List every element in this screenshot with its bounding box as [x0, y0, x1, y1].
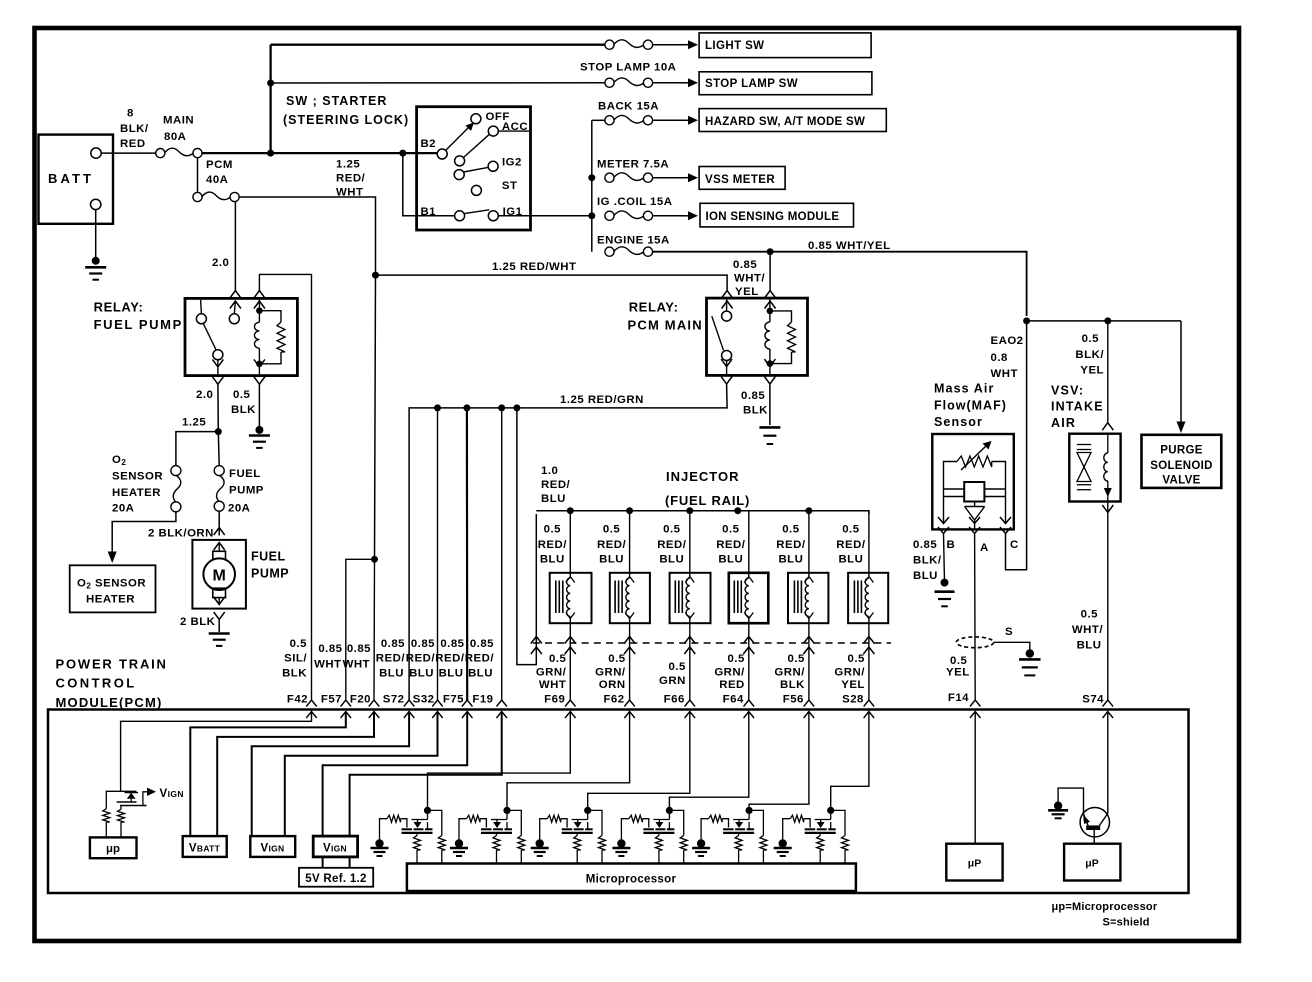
svg-text:0.85: 0.85	[381, 638, 405, 650]
svg-text:F14: F14	[948, 692, 969, 704]
svg-text:1.25: 1.25	[182, 417, 206, 429]
svg-text:0.5: 0.5	[842, 524, 859, 536]
wire 1.25 RED/GRN relay output	[409, 384, 727, 700]
svg-text:PCM MAIN: PCM MAIN	[628, 318, 703, 333]
wire vertical main feed riser (thick)	[269, 45, 271, 153]
MAF terminal C	[1000, 517, 1011, 524]
svg-text:0.85 WHT/YEL: 0.85 WHT/YEL	[808, 240, 891, 252]
svg-text:STOP LAMP 10A: STOP LAMP 10A	[580, 62, 676, 74]
wire B2 branch down to B1	[403, 153, 455, 216]
terminal IG2	[488, 161, 498, 171]
ground driver 3 gate	[536, 839, 544, 847]
svg-text:HAZARD SW, A/T MODE SW: HAZARD SW, A/T MODE SW	[705, 116, 865, 128]
resistor driver 5 sense	[760, 836, 767, 851]
box O2 SENSOR HEATER	[70, 565, 156, 612]
wire pin S32 to VIGN 1	[285, 712, 438, 838]
driver 4 sense resistor link	[669, 810, 683, 835]
fuel pump relay fixed contact	[229, 314, 239, 324]
svg-text:0.5: 0.5	[668, 661, 685, 673]
wire VIGN2 to 5V ref	[322, 857, 324, 868]
svg-text:WHT: WHT	[336, 187, 363, 199]
terminal IG1	[488, 211, 498, 221]
svg-text:MAIN: MAIN	[163, 115, 194, 127]
svg-text:BLK: BLK	[231, 404, 256, 416]
junction injector 5 rail tap	[805, 507, 812, 514]
svg-text:BATT: BATT	[48, 171, 94, 186]
svg-text:BLK: BLK	[282, 668, 307, 680]
svg-text:2 BLK: 2 BLK	[180, 616, 216, 628]
svg-text:GRN/: GRN/	[536, 667, 567, 679]
svg-text:CONTROL: CONTROL	[56, 676, 137, 691]
svg-text:FUEL PUMP: FUEL PUMP	[94, 317, 183, 332]
ground MAF sensor B	[941, 579, 949, 587]
svg-text:GRN/: GRN/	[595, 667, 626, 679]
svg-text:F56: F56	[783, 694, 804, 706]
svg-text:BLU: BLU	[599, 554, 624, 566]
junction PCM MAIN relay coil feed	[767, 248, 774, 255]
box PURGE SOLENOID VALVE	[1142, 435, 1222, 488]
wire ignition feed bus vertical	[591, 120, 593, 251]
svg-text:0.5: 0.5	[663, 524, 680, 536]
driver 5 drain node	[746, 807, 753, 814]
svg-text:SOLENOID: SOLENOID	[1150, 460, 1212, 472]
motor box FUEL PUMP	[192, 540, 246, 609]
fuel pump relay moving contact	[213, 350, 223, 360]
connector chevrons PCM MAIN relay bottom switch	[721, 359, 732, 367]
resistor VIGN regulator left	[103, 809, 110, 822]
wire to pin F20	[373, 559, 376, 700]
svg-text:0.5: 0.5	[722, 524, 739, 536]
svg-text:BLU: BLU	[468, 668, 493, 680]
wire EAO2 0.8 WHT to MAF C	[1006, 321, 1027, 570]
wire 0.85 WHT/YEL to VSV and purge valve	[1027, 320, 1181, 322]
wire pin F20 to VBATT	[217, 712, 374, 838]
svg-text:0.5: 0.5	[727, 653, 744, 665]
svg-text:WHT: WHT	[343, 659, 370, 671]
svg-text:2.0: 2.0	[212, 257, 229, 269]
pin F62 connector chevrons	[624, 700, 635, 707]
wire to pin F75	[466, 408, 469, 700]
svg-text:μP: μP	[1085, 858, 1098, 870]
ground PCM MAIN relay	[759, 426, 780, 429]
wire to pin F19	[501, 408, 503, 700]
wire MAF B to ground	[944, 534, 945, 583]
switch wiper middle contact lower	[454, 170, 464, 180]
wire MAIN fuse to PCM fuse	[197, 158, 199, 193]
MAF variable resistor	[957, 456, 992, 467]
resistor driver 3 source	[576, 833, 578, 836]
svg-text:BLU: BLU	[1077, 640, 1102, 652]
junction S32 feed	[434, 404, 441, 411]
svg-text:2 BLK/ORN: 2 BLK/ORN	[148, 528, 214, 540]
svg-text:VALVE: VALVE	[1162, 475, 1200, 487]
svg-text:BLU: BLU	[409, 668, 434, 680]
pin S28 connector chevrons	[864, 700, 875, 707]
wire transistor base to microprocessor	[1093, 830, 1095, 844]
fuse BACK 15A	[605, 116, 614, 125]
svg-text:B: B	[947, 539, 956, 551]
svg-text:BACK 15A: BACK 15A	[598, 101, 659, 113]
driver 2 sense resistor link	[507, 810, 521, 835]
pin F42 connector chevrons	[306, 700, 317, 707]
junction node stop lamp branch	[267, 80, 274, 87]
motor armature M	[203, 558, 235, 590]
svg-text:0.5: 0.5	[1081, 609, 1098, 621]
pin F57 connector chevrons	[341, 700, 352, 707]
svg-text:BLK: BLK	[743, 405, 768, 417]
wire pin S72 to VIGN 1	[252, 712, 409, 838]
injector 3 box	[670, 573, 711, 623]
arrow to VSS METER	[653, 177, 684, 179]
wire injector 1 feed	[569, 511, 571, 576]
svg-text:VSV:: VSV:	[1051, 384, 1084, 398]
svg-text:PUMP: PUMP	[251, 567, 289, 581]
svg-text:0.85: 0.85	[913, 539, 937, 551]
svg-text:PURGE: PURGE	[1160, 445, 1202, 457]
wire pin F62 to driver 2	[507, 712, 630, 811]
resistor driver 2 source	[496, 833, 498, 836]
wire purge valve feed	[1180, 321, 1182, 419]
dashed connector boundary fuel rail	[533, 642, 891, 644]
svg-text:GRN/: GRN/	[774, 667, 805, 679]
terminal ST	[471, 185, 481, 195]
svg-text:POWER TRAIN: POWER TRAIN	[56, 657, 168, 672]
svg-text:Sensor: Sensor	[934, 415, 983, 429]
wire to LIGHT SW fuse (thick)	[271, 44, 605, 46]
svg-text:0.85: 0.85	[470, 638, 494, 650]
wire fuel pump to ground 2 BLK	[218, 620, 220, 633]
switch blade wiper to IG2	[464, 167, 489, 172]
wire BACK fuse feed	[592, 119, 605, 121]
resistor driver 4 sense	[680, 836, 687, 851]
resistor parallel with fuel pump relay coil	[259, 311, 281, 322]
svg-text:MODULE(PCM): MODULE(PCM)	[56, 695, 163, 710]
connector chevrons fuel pump relay top coil input	[254, 291, 265, 299]
wire VSV feed down	[1107, 321, 1109, 424]
wire injector 4 feed	[748, 511, 750, 576]
box HAZARD SW A/T MODE SW	[699, 109, 886, 132]
driver 1 drain node	[424, 807, 431, 814]
svg-text:HEATER: HEATER	[112, 487, 161, 499]
svg-text:F64: F64	[723, 694, 744, 706]
resistor driver 1 sense	[438, 836, 445, 851]
wire injector 3 feed	[689, 511, 691, 576]
wire injector 6 output	[868, 617, 870, 701]
switch wiper middle contact upper	[455, 156, 465, 166]
svg-text:PUMP: PUMP	[229, 485, 264, 497]
svg-text:RED/: RED/	[376, 653, 406, 665]
connector chevron below VSV	[1102, 505, 1113, 513]
svg-text:RED/: RED/	[657, 539, 687, 551]
svg-text:0.5: 0.5	[608, 653, 625, 665]
svg-text:(STEERING LOCK): (STEERING LOCK)	[283, 113, 409, 127]
svg-text:0.85: 0.85	[741, 390, 765, 402]
svg-text:0.5: 0.5	[603, 524, 620, 536]
MAF terminal B	[938, 517, 949, 524]
svg-text:Microprocessor: Microprocessor	[586, 874, 677, 886]
svg-text:FUEL: FUEL	[251, 550, 286, 564]
transistor driver 4 MOSFET	[668, 810, 670, 819]
svg-text:0.85: 0.85	[733, 259, 757, 271]
arrow to HAZARD SW	[653, 119, 684, 121]
svg-text:μp: μp	[106, 843, 120, 855]
svg-text:0.5: 0.5	[290, 638, 307, 650]
pin F14 connector chevrons	[970, 700, 981, 707]
svg-text:1.25: 1.25	[336, 159, 360, 171]
VSV coil output arrow	[1107, 481, 1109, 502]
transistor driver 2 MOSFET	[506, 810, 508, 819]
terminal B2	[437, 149, 447, 159]
junction injector rail feed	[513, 404, 520, 411]
PCM MAIN relay blade	[712, 316, 724, 350]
VIGN regulator left branch	[106, 791, 136, 808]
svg-text:F66: F66	[664, 694, 685, 706]
injector 1 coil	[566, 577, 575, 583]
wire 2.0 feed to fuel pump relay	[234, 202, 236, 291]
svg-text:GRN/: GRN/	[834, 667, 865, 679]
transistor driver 1 MOSFET	[427, 810, 429, 819]
resistor driver 5 source	[738, 833, 740, 836]
wire injector 5 feed	[808, 511, 810, 576]
svg-text:BLU: BLU	[838, 554, 863, 566]
svg-text:RED: RED	[719, 679, 745, 691]
svg-text:μp=Microprocessor: μp=Microprocessor	[1052, 901, 1158, 913]
svg-text:S: S	[1005, 626, 1013, 638]
svg-text:FUEL: FUEL	[229, 468, 261, 480]
driver 2 drain node	[503, 807, 510, 814]
svg-text:RELAY:: RELAY:	[94, 299, 144, 314]
injector 3 nozzle bars	[674, 581, 676, 614]
svg-text:RED/: RED/	[336, 173, 366, 185]
svg-text:INTAKE: INTAKE	[1051, 400, 1104, 414]
svg-text:BLU: BLU	[913, 570, 938, 582]
svg-text:ION SENSING MODULE: ION SENSING MODULE	[706, 211, 840, 223]
svg-text:VSS METER: VSS METER	[705, 174, 775, 186]
ground driver 2 gate	[455, 839, 463, 847]
wire 1.0 RED/BLU injector rail feed	[517, 408, 536, 665]
svg-text:ENGINE 15A: ENGINE 15A	[597, 235, 670, 247]
arrow to STOP LAMP SW	[653, 82, 684, 84]
junction F75 feed	[463, 404, 470, 411]
wire pin S28 to driver 6	[831, 712, 869, 811]
VIGN regulator zener diode	[127, 793, 136, 799]
switch blade wiper to ACC	[464, 134, 490, 157]
svg-text:8: 8	[127, 108, 134, 120]
injector 6 coil	[864, 577, 873, 583]
svg-text:RED/: RED/	[406, 653, 436, 665]
resistor VIGN regulator right	[120, 806, 122, 810]
svg-text:GRN: GRN	[659, 675, 686, 687]
injector 5 nozzle bars	[793, 581, 795, 614]
svg-text:0.8: 0.8	[991, 352, 1008, 364]
wire relay coil output 0.5 BLK to ground	[258, 384, 260, 430]
box VIGN 2	[313, 836, 357, 857]
box microprocessor uP F14	[946, 844, 1002, 881]
wire pin F69 to driver 1	[428, 712, 571, 811]
driver 1 sense resistor link	[428, 810, 442, 835]
svg-text:EAO2: EAO2	[991, 335, 1024, 347]
svg-text:S72: S72	[383, 694, 405, 706]
injector 3 coil	[685, 577, 694, 583]
injector 6 nozzle bars	[853, 581, 855, 614]
svg-text:0.5: 0.5	[544, 524, 561, 536]
driver 5 sense resistor link	[749, 810, 763, 835]
svg-text:HEATER: HEATER	[86, 594, 135, 606]
svg-text:20A: 20A	[112, 503, 134, 515]
wire pin S74 to output transistor	[1107, 712, 1109, 814]
svg-text:C: C	[1010, 539, 1019, 551]
injector 4 coil	[744, 577, 753, 583]
svg-text:IG .COIL 15A: IG .COIL 15A	[597, 196, 672, 208]
wire pin F64 to driver 4	[669, 712, 748, 811]
junction IG COIL branch	[588, 212, 595, 219]
resistor driver 5 gate	[701, 819, 709, 844]
fuse STOP LAMP 10A	[605, 78, 614, 87]
svg-text:BLK: BLK	[780, 679, 805, 691]
wire injector 2 feed	[629, 511, 631, 576]
wire 1.25 RED/WHT riser to F57/F20	[375, 272, 376, 560]
pin F20 connector chevrons	[369, 700, 380, 707]
VSV coil	[1107, 434, 1109, 453]
svg-text:RED/: RED/	[465, 653, 495, 665]
MAF internal wiring right	[992, 462, 1006, 525]
junction EAO2	[1023, 317, 1030, 324]
driver 4 drain node	[666, 807, 673, 814]
driver 6 drain node	[827, 807, 834, 814]
connector chevrons fuel pump relay bottom switch output	[212, 359, 223, 367]
wire injector 2 output	[629, 617, 631, 701]
svg-text:M: M	[213, 568, 226, 585]
svg-text:F42: F42	[287, 694, 308, 706]
wire ENGINE fuse output 0.85 WHT/YEL	[653, 252, 1027, 316]
svg-text:BLU: BLU	[778, 554, 803, 566]
junction injector 2 rail tap	[626, 507, 633, 514]
junction F19 feed	[498, 404, 505, 411]
svg-text:AIR: AIR	[1051, 416, 1076, 430]
fuse METER 7.5A	[605, 173, 614, 182]
resistor parallel with PCM MAIN relay coil	[770, 311, 792, 322]
fuel pump relay blade	[203, 323, 216, 350]
svg-text:ST: ST	[502, 180, 518, 192]
wire injector 6 feed	[868, 511, 870, 576]
wire 0.85 WHT/YEL into relay coil	[769, 252, 771, 291]
svg-text:YEL: YEL	[841, 679, 865, 691]
fuel pump relay upper-left contact	[196, 314, 206, 324]
connector chevron above fuel pump	[214, 528, 225, 536]
transistor driver 3 MOSFET	[587, 810, 589, 819]
svg-text:0.85: 0.85	[440, 638, 464, 650]
connector chevron above VSV	[1102, 423, 1113, 431]
svg-text:VIGN: VIGN	[261, 843, 285, 855]
svg-text:VBATT: VBATT	[189, 843, 221, 855]
wire VSV to PCM pin S74 0.5 WHT/BLU	[1107, 502, 1109, 701]
injector 4 box	[729, 573, 769, 623]
relay RELAY: PCM MAIN	[707, 298, 808, 375]
box Microprocessor	[407, 864, 856, 892]
wire IG1 to IG COIL fuse branch	[498, 215, 592, 217]
wire shield to ground	[994, 642, 1030, 653]
ground shield	[1026, 649, 1034, 657]
connector chevrons injector 1 at rail connector	[565, 637, 576, 644]
svg-text:F69: F69	[544, 694, 565, 706]
wire pin F14 to microprocessor	[974, 712, 976, 844]
injector 6 box	[848, 573, 888, 623]
resistor driver 4 gate	[621, 819, 629, 844]
relay coil PCM MAIN	[767, 308, 774, 315]
svg-text:F62: F62	[603, 694, 624, 706]
wire pin F57 to VBATT	[190, 712, 345, 838]
svg-text:F20: F20	[350, 694, 371, 706]
svg-text:A: A	[980, 542, 989, 554]
svg-text:Mass Air: Mass Air	[934, 382, 994, 396]
svg-text:RED/: RED/	[597, 539, 627, 551]
VIGN regulator bar2	[120, 805, 146, 807]
ground driver 1 gate	[375, 839, 383, 847]
terminal OFF	[471, 114, 481, 124]
MAF variable resistor arrow	[961, 446, 986, 470]
svg-text:μP: μP	[968, 858, 981, 870]
fuse PCM 40A	[193, 192, 202, 201]
fuse IG COIL 15A	[605, 211, 614, 220]
svg-text:ORN: ORN	[599, 679, 626, 691]
wire branch to O2 sensor heater fuse	[176, 432, 218, 466]
PCM MAIN relay switch output stub	[726, 361, 728, 376]
switch blade B1 to IG1	[464, 210, 489, 214]
pin F69 connector chevrons	[565, 700, 576, 707]
relay coil fuel pump	[256, 307, 263, 314]
injector 1 box	[550, 573, 592, 623]
arrow into O2 sensor heater box	[108, 552, 117, 564]
ground transistor emitter	[1054, 802, 1062, 810]
resistor driver 2 gate	[459, 819, 467, 844]
motor output stub	[218, 598, 220, 604]
module box PCM	[48, 710, 1189, 894]
pin S32 connector chevrons	[432, 700, 443, 707]
svg-text:RED: RED	[120, 138, 146, 150]
svg-text:F19: F19	[472, 694, 493, 706]
wire injector 4 output	[748, 617, 750, 701]
resistor driver 3 gate	[540, 819, 548, 844]
connector chevrons PCM MAIN relay bottom coil	[764, 359, 775, 367]
svg-text:RED/: RED/	[776, 539, 806, 551]
wire pin F56 to driver 5	[749, 712, 809, 811]
solenoid valve box VSV INTAKE AIR	[1069, 434, 1120, 502]
wire MAF A to PCM pin F14	[974, 534, 977, 701]
battery BATT	[39, 135, 114, 224]
svg-text:1.0: 1.0	[541, 465, 558, 477]
MAF internal wiring left	[944, 462, 957, 525]
fuel pump relay switch common stub	[234, 301, 235, 314]
wire PCM MAIN relay coil to ground 0.85 BLK	[769, 384, 771, 425]
wire to FUEL PUMP fuse	[217, 432, 220, 466]
VIGN regulator bar1	[117, 801, 137, 803]
wire injector fuel rail bus	[536, 511, 869, 514]
svg-text:BLK/: BLK/	[913, 555, 942, 567]
wire 1.25 RED/WHT to PCM MAIN relay	[376, 275, 728, 290]
injector 2 box	[610, 573, 650, 623]
svg-text:80A: 80A	[164, 131, 186, 143]
resistor driver 2 sense	[518, 836, 525, 851]
wire injector 3 output	[689, 617, 691, 701]
svg-text:0.5: 0.5	[950, 655, 967, 667]
svg-text:SIL/: SIL/	[284, 653, 307, 665]
wire to pin S32	[437, 408, 439, 700]
svg-text:INJECTOR: INJECTOR	[666, 469, 740, 484]
PCM MAIN relay moving contact	[722, 351, 732, 361]
svg-text:0.5: 0.5	[788, 653, 805, 665]
ground driver 6 gate	[779, 839, 787, 847]
arrow into purge solenoid valve	[1177, 422, 1186, 434]
